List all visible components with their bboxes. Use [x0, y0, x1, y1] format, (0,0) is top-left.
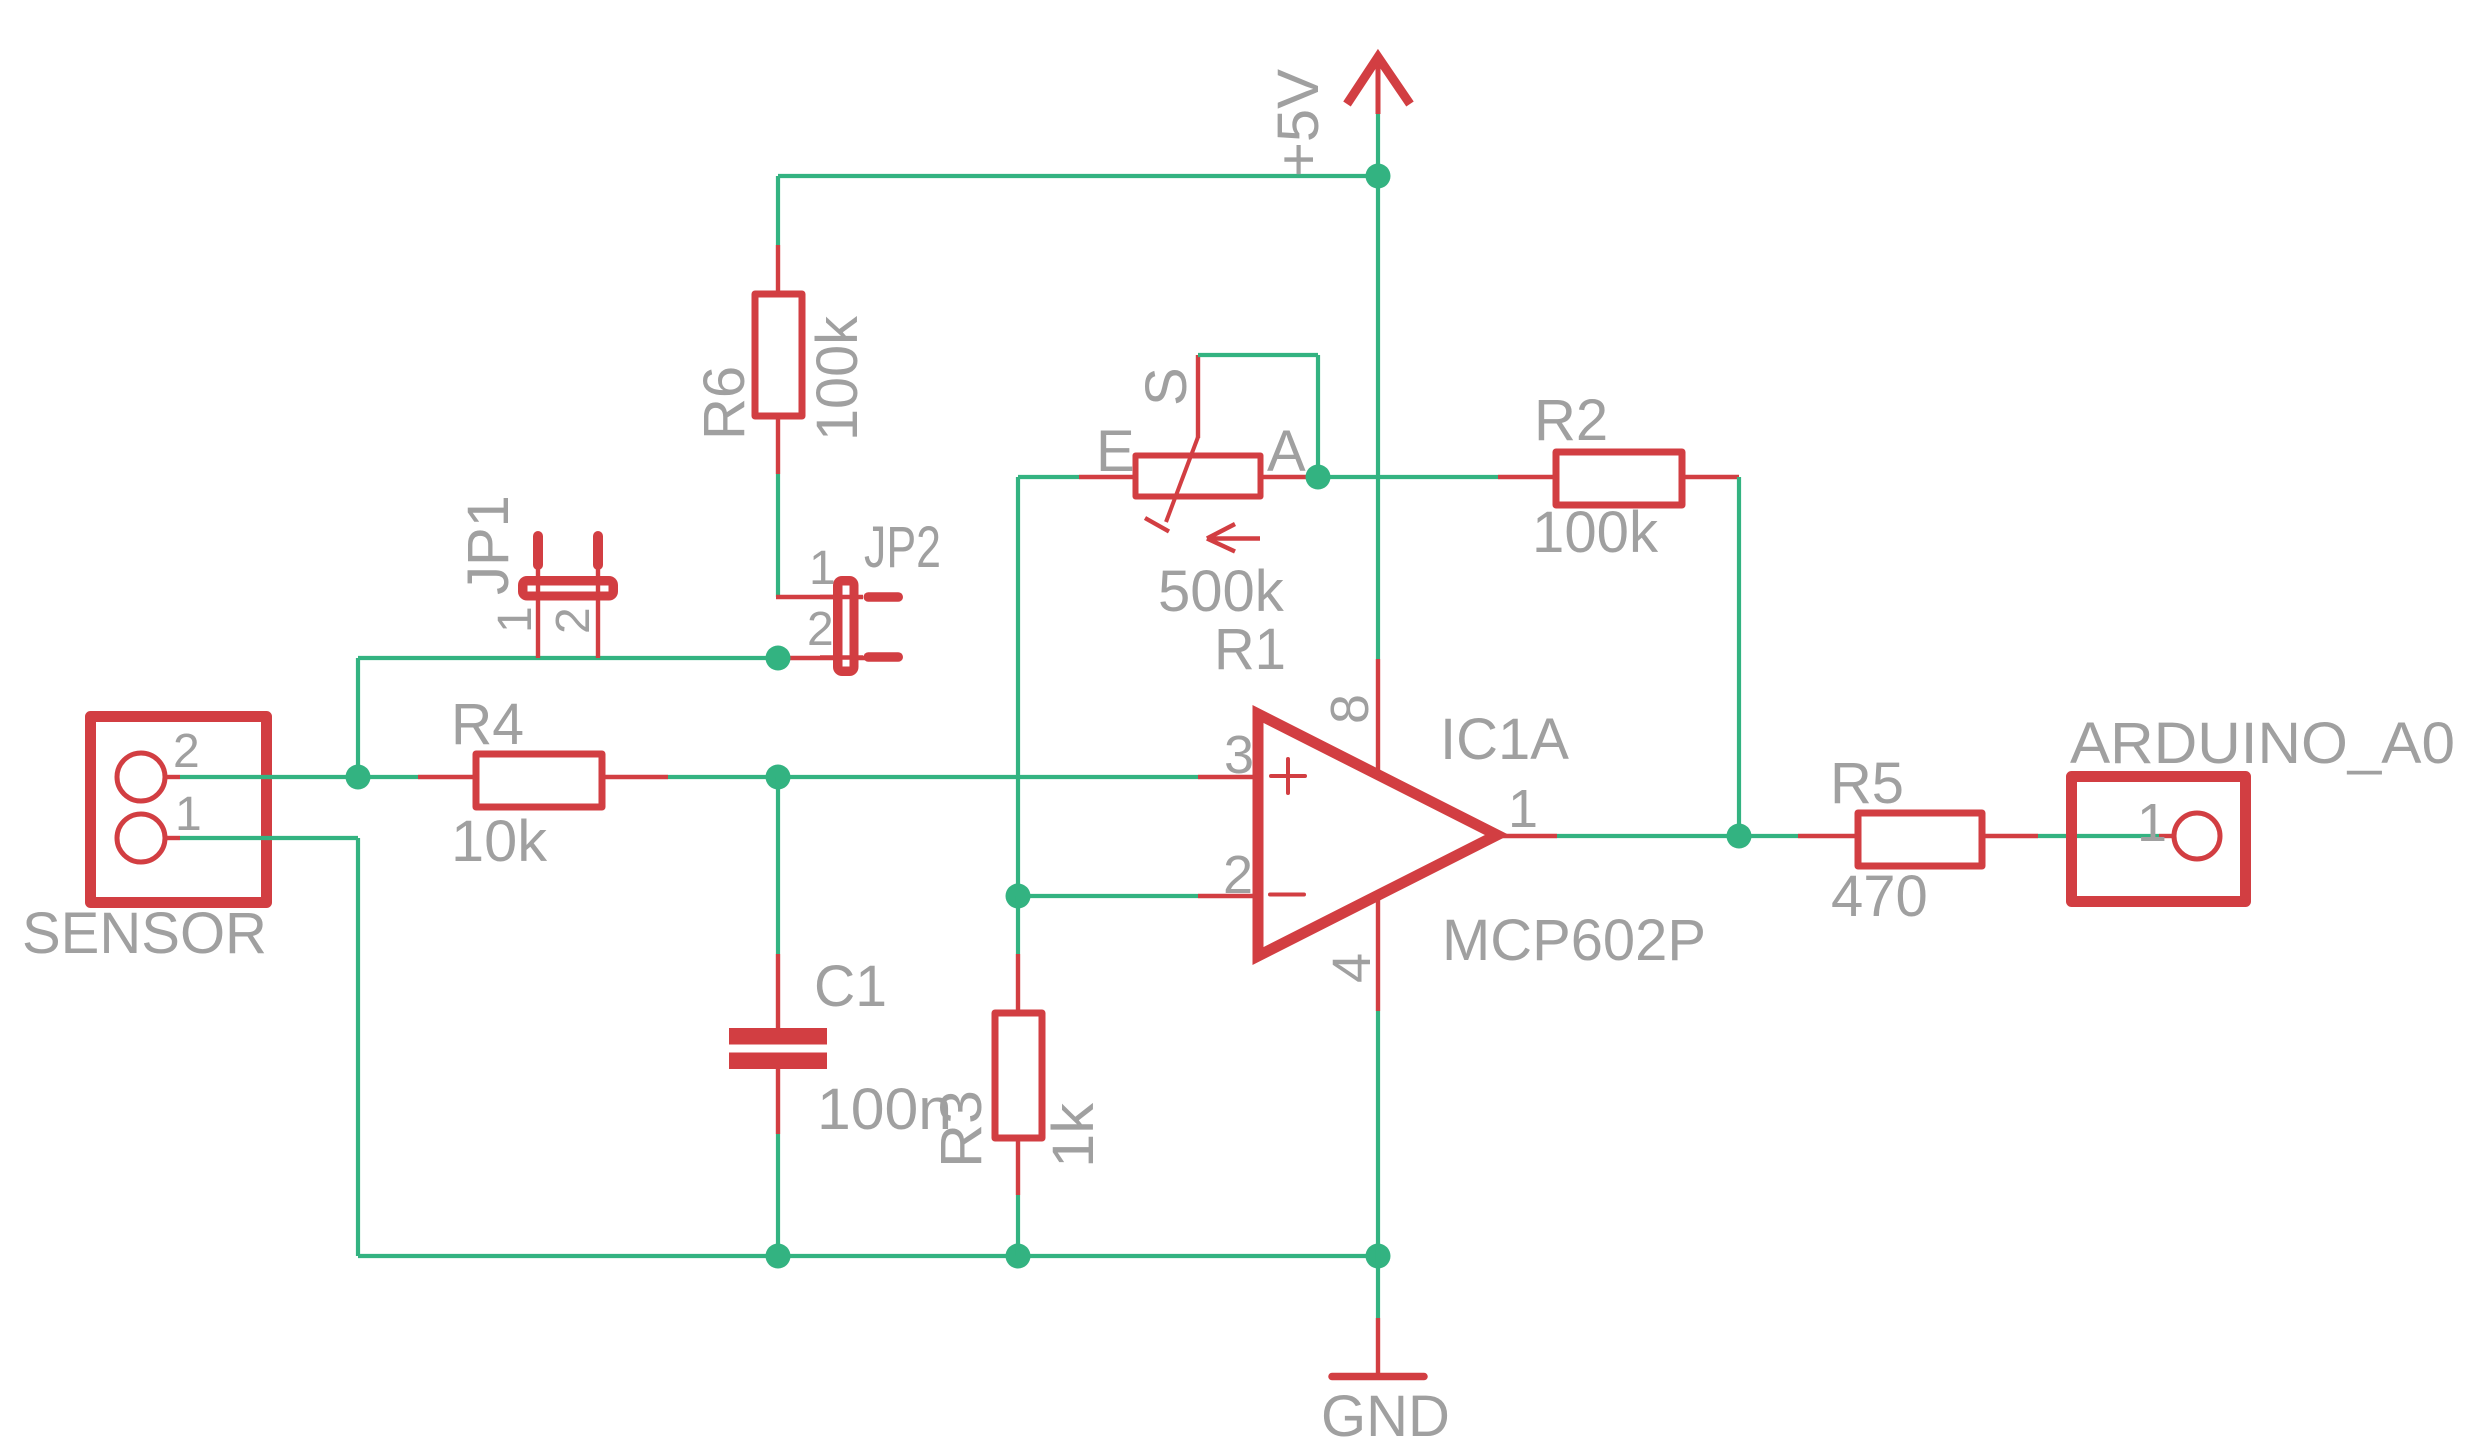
pin wire op-amp pin4 — [1376, 888, 1380, 1011]
svg-text:3: 3 — [1224, 725, 1254, 785]
svg-text:R2: R2 — [1534, 388, 1608, 453]
pin wire pot A — [1260, 475, 1306, 479]
pin wire C1 bottom — [776, 1069, 780, 1134]
svg-text:1: 1 — [1508, 779, 1538, 839]
wire ground rail — [358, 1254, 1378, 1258]
wire pin2 node — [1018, 894, 1198, 898]
svg-text:R3: R3 — [929, 1090, 994, 1168]
pin circle SENSOR 2 — [117, 753, 165, 801]
junction pin2 node — [1006, 884, 1031, 909]
svg-text:1k: 1k — [1041, 1102, 1106, 1168]
svg-text:1: 1 — [2137, 793, 2167, 853]
wire R2 to output — [1737, 477, 1741, 836]
junction sensor node — [346, 765, 371, 790]
svg-text:S: S — [1134, 367, 1199, 406]
svg-text:100k: 100k — [1532, 500, 1659, 565]
junction rail R3 — [1006, 1244, 1031, 1269]
svg-text:E: E — [1096, 419, 1135, 484]
pin circle ARDUINO_A0 1 — [2174, 813, 2220, 859]
pin wire JP2 pin 1 — [776, 595, 835, 599]
pin wire R3 bottom — [1016, 1138, 1020, 1195]
wire sensor pin1 vertical — [356, 838, 360, 1256]
pin wire R4 right — [602, 775, 668, 779]
pin wire op-amp output — [1500, 834, 1557, 838]
wire C1 top — [776, 777, 780, 954]
wire JP1 to sensor node vertical — [356, 658, 360, 777]
wire pot S vertical — [1316, 355, 1320, 477]
pin wire C1 top — [776, 954, 780, 1028]
pin stub SENSOR 1 — [165, 836, 180, 840]
svg-text:2: 2 — [547, 607, 600, 634]
svg-text:A: A — [1267, 419, 1306, 484]
ground GND symbol — [1332, 1373, 1424, 1381]
junction +5V node — [1366, 164, 1391, 189]
svg-text:SENSOR: SENSOR — [22, 901, 267, 966]
svg-text:2: 2 — [807, 603, 834, 656]
wire +5V vertical — [1376, 114, 1380, 659]
wire sensor pin2 to R4 — [180, 775, 418, 779]
svg-text:R4: R4 — [451, 692, 524, 757]
junction rail C1 — [766, 1244, 791, 1269]
wire R4 to op-amp pin3 — [668, 775, 1198, 779]
pin wire R5 right — [1982, 834, 2038, 838]
pin wire R5 left — [1798, 834, 1858, 838]
pin wire pot S — [1196, 355, 1200, 438]
svg-text:C1: C1 — [814, 954, 887, 1019]
wire R5 to ARDUINO_A0 — [2038, 834, 2159, 838]
svg-text:500k: 500k — [1158, 559, 1285, 624]
svg-text:470: 470 — [1831, 864, 1928, 929]
wire R3 to rail — [1016, 1195, 1020, 1256]
pin wire JP2 pin 2 — [778, 656, 866, 660]
wire pot E horizontal — [1018, 475, 1079, 479]
pin wire R2 left — [1498, 475, 1556, 479]
pot wiper diagonal — [1166, 437, 1198, 522]
wire output to R5 — [1557, 834, 1798, 838]
resistor R4 — [476, 754, 602, 807]
pin stub SENSOR 2 — [165, 775, 180, 779]
pin stub ARDUINO_A0 — [2159, 834, 2174, 838]
resistor R2 — [1556, 452, 1682, 505]
wire R6 top drop — [776, 176, 780, 245]
wire rail to GND — [1376, 1256, 1380, 1318]
wire R3 top — [1016, 896, 1020, 954]
junction R4 node — [766, 765, 791, 790]
wire pin4 to rail — [1376, 1011, 1380, 1256]
pin wire R6 bottom — [776, 416, 780, 474]
junction pot A node — [1306, 465, 1331, 490]
wire R6 to JP2 pin1 — [776, 474, 780, 597]
svg-text:R5: R5 — [1830, 751, 1904, 816]
svg-text:100k: 100k — [805, 315, 870, 441]
junction rail GND — [1366, 1244, 1391, 1269]
op-amp plus — [1271, 759, 1305, 793]
wire C1 to rail — [776, 1134, 780, 1256]
connector SENSOR box — [91, 717, 267, 903]
svg-text:JP1: JP1 — [456, 495, 521, 595]
potentiometer R1 body — [1136, 456, 1261, 497]
svg-text:R1: R1 — [1214, 617, 1286, 682]
pin wire R2 right — [1682, 475, 1739, 479]
pin wire R6 top — [776, 245, 780, 296]
junction JP2 pin2 node — [766, 646, 791, 671]
supply +5V symbol — [1347, 57, 1410, 114]
pin circle SENSOR 1 — [117, 814, 165, 862]
wire +5V horizontal — [778, 174, 1378, 178]
pin wire R4 left — [418, 775, 476, 779]
svg-text:IC1A: IC1A — [1440, 707, 1569, 772]
svg-text:8: 8 — [1320, 694, 1380, 724]
op-amp minus — [1270, 893, 1304, 897]
resistor R3 — [995, 1013, 1042, 1138]
pin wire pot E — [1079, 475, 1137, 479]
svg-text:GND: GND — [1321, 1384, 1450, 1449]
svg-text:+5V: +5V — [1266, 69, 1331, 177]
wire pot E vertical — [1016, 477, 1020, 896]
svg-text:1: 1 — [175, 788, 202, 841]
resistor R6 — [755, 294, 802, 416]
wire JP1 net horizontal — [358, 656, 778, 660]
svg-text:4: 4 — [1322, 953, 1382, 983]
resistor R5 — [1858, 813, 1982, 866]
wire pot A to R2 — [1306, 475, 1498, 479]
pin wire GND — [1376, 1318, 1380, 1374]
capacitor C1 — [729, 1028, 827, 1069]
connector ARDUINO_A0 box — [2072, 777, 2246, 902]
pin wire op-amp pin2 — [1198, 894, 1258, 898]
pin wire op-amp pin8 — [1376, 659, 1380, 782]
op-amp IC1A — [1258, 714, 1497, 956]
svg-text:R6: R6 — [692, 366, 757, 440]
pin wire JP1 pin2 — [596, 568, 600, 658]
pot arrow — [1207, 524, 1260, 552]
jumper JP2 — [820, 576, 903, 676]
svg-text:JP2: JP2 — [864, 515, 941, 580]
wire pot S horizontal — [1198, 353, 1318, 357]
svg-text:1: 1 — [489, 606, 542, 633]
svg-text:1: 1 — [809, 542, 836, 595]
junction output node — [1727, 824, 1752, 849]
pot wiper crossbar — [1145, 518, 1169, 532]
pin wire op-amp pin3 — [1198, 775, 1258, 779]
svg-text:10k: 10k — [451, 809, 548, 874]
jumper JP1 — [518, 531, 618, 601]
pin wire JP1 pin1 — [536, 568, 540, 658]
svg-text:ARDUINO_A0: ARDUINO_A0 — [2070, 711, 2455, 776]
svg-text:MCP602P: MCP602P — [1442, 908, 1706, 973]
pin wire R3 top — [1016, 954, 1020, 1013]
svg-text:2: 2 — [173, 725, 200, 778]
wire sensor pin1 horizontal — [180, 836, 358, 840]
svg-text:2: 2 — [1223, 845, 1253, 905]
